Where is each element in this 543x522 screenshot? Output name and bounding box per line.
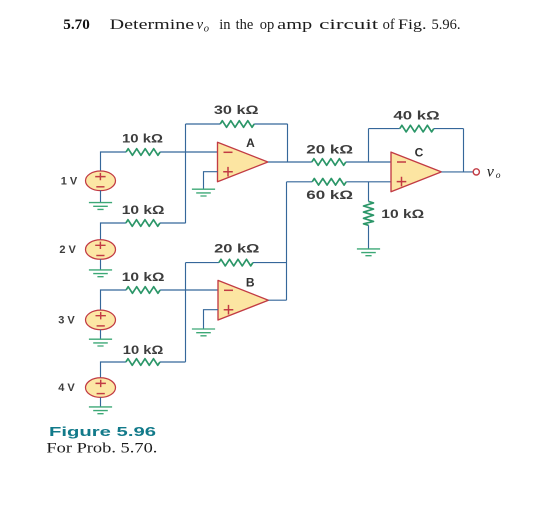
svg-text:30 kΩ: 30 kΩ — [214, 105, 259, 117]
svg-text:1 V: 1 V — [61, 176, 78, 188]
label 20 kOhm (A output to C) — [306, 144, 353, 156]
label C — [415, 146, 424, 160]
ground below 10 kOhm at C — [357, 249, 380, 256]
wire: A feedback right vertical to A output — [287, 124, 289, 162]
wire: op-amp A feedback top rail — [186, 123, 288, 125]
resistor 60 kOhm (B output to C) — [312, 179, 346, 186]
wire: B output rail to C non-inverting input — [287, 181, 392, 183]
ground below 4 V source — [89, 407, 112, 414]
wire: 4 V source to ground — [100, 397, 102, 407]
label 60 kOhm — [306, 190, 353, 202]
op-amp C — [391, 152, 441, 192]
resistor 10 kOhm (1 V input) — [126, 149, 160, 156]
svg-text:C: C — [415, 146, 424, 160]
wire: C feedback left vertical — [368, 129, 370, 162]
label 40 kOhm — [393, 110, 439, 122]
svg-text:40 kΩ: 40 kΩ — [393, 110, 439, 122]
svg-text:20 kΩ: 20 kΩ — [214, 244, 259, 256]
voltage source 4 V — [86, 378, 116, 398]
resistor 10 kOhm (C non-inverting to ground) — [364, 182, 374, 249]
wire: op-amp C feedback top rail — [369, 128, 464, 130]
resistor 10 kOhm (3 V input) — [126, 287, 160, 294]
wire: B non-inverting input to ground — [204, 310, 219, 329]
svg-text:B: B — [246, 276, 255, 290]
svg-text:10 kΩ: 10 kΩ — [122, 272, 165, 284]
figure caption: For Prob. 5.70. — [46, 441, 157, 457]
wire: 1 V source to ground — [100, 191, 102, 203]
wire: A output to op-amp C inverting input — [268, 161, 391, 163]
wire: C feedback right vertical — [463, 129, 465, 172]
wire: 3 V source to B inverting input — [101, 290, 219, 310]
figure caption: Figure 5.96 — [49, 424, 156, 439]
problem title text — [63, 17, 460, 35]
svg-text:For Prob. 5.70.: For Prob. 5.70. — [46, 441, 157, 457]
label B — [246, 276, 255, 290]
label vo — [487, 164, 501, 181]
voltage source 1 V — [86, 171, 116, 191]
wire: 2 V source to ground — [100, 259, 102, 270]
op-amp A — [218, 142, 268, 181]
wire: summing node vertical of op-amp A — [185, 124, 187, 223]
voltage source 3 V — [86, 310, 116, 330]
svg-text:60 kΩ: 60 kΩ — [306, 190, 353, 202]
wire: B feedback top rail — [186, 262, 287, 264]
label A — [246, 136, 255, 150]
svg-text:4 V: 4 V — [58, 382, 75, 394]
output terminal node — [473, 169, 479, 175]
svg-text:Determinevointheopampcircuitof: DeterminevointheopampcircuitofFig.5.96. — [110, 17, 461, 35]
wire: A non-inverting input to ground — [204, 172, 218, 190]
label 20 kOhm (B feedback) — [214, 244, 259, 256]
svg-text:20 kΩ: 20 kΩ — [306, 144, 353, 156]
wire: B output vertical riser — [286, 182, 288, 300]
label 10 kOhm (4 V input) — [123, 345, 164, 357]
voltage source 2 V — [86, 240, 116, 260]
label 1 V — [61, 176, 78, 188]
wire: 1 V source to A inverting input — [101, 152, 218, 171]
label 2 V — [59, 244, 76, 256]
ground below 2 V source — [89, 270, 112, 277]
svg-text:o: o — [496, 171, 501, 181]
label 10 kOhm (3 V input) — [122, 272, 165, 284]
wire: summing node vertical of op-amp B — [185, 263, 187, 362]
ground at B non-inverting input — [192, 329, 215, 336]
resistor 10 kOhm (2 V input) — [126, 220, 160, 227]
label 10 kOhm (C ground leg) — [381, 209, 424, 221]
label 10 kOhm (2 V input) — [122, 205, 165, 217]
label 3 V — [58, 315, 75, 327]
wire: C output — [441, 171, 473, 173]
resistor 40 kOhm (C feedback) — [400, 125, 434, 132]
svg-text:3 V: 3 V — [58, 315, 75, 327]
svg-text:5.70: 5.70 — [63, 17, 90, 33]
svg-text:10 kΩ: 10 kΩ — [122, 133, 163, 145]
resistor 30 kOhm (A feedback) — [220, 121, 254, 128]
svg-text:A: A — [246, 136, 255, 150]
ground below 1 V source — [89, 203, 112, 210]
resistor 20 kOhm (A output to C) — [312, 159, 346, 166]
svg-text:10 kΩ: 10 kΩ — [381, 209, 424, 221]
svg-text:2 V: 2 V — [59, 244, 76, 256]
resistor 20 kOhm (B feedback) — [219, 259, 253, 266]
label 30 kOhm — [214, 105, 259, 117]
svg-text:10 kΩ: 10 kΩ — [123, 345, 164, 357]
svg-text:10 kΩ: 10 kΩ — [122, 205, 165, 217]
wire: 4 V source to B summing node — [101, 362, 186, 378]
wire: B output stub — [268, 299, 286, 301]
op-amp B — [218, 280, 268, 320]
wire: 3 V source to ground — [100, 330, 102, 340]
resistor 10 kOhm (4 V input) — [126, 359, 160, 366]
ground at A non-inverting input — [192, 189, 215, 196]
label 4 V — [58, 382, 75, 394]
svg-text:v: v — [487, 164, 495, 181]
ground below 3 V source — [89, 339, 112, 346]
svg-text:Figure 5.96: Figure 5.96 — [49, 424, 156, 439]
label 10 kOhm (1 V input) — [122, 133, 163, 145]
wire: 2 V source to A summing node — [101, 223, 186, 240]
